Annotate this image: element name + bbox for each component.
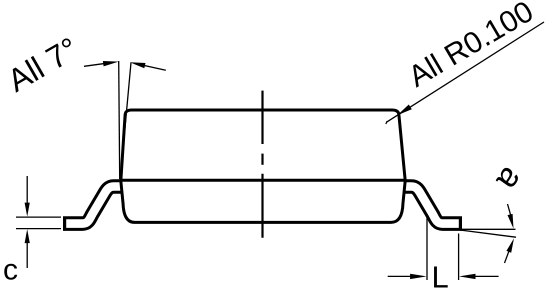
svg-text:L: L (432, 260, 449, 294)
svg-text:c: c (3, 254, 18, 287)
